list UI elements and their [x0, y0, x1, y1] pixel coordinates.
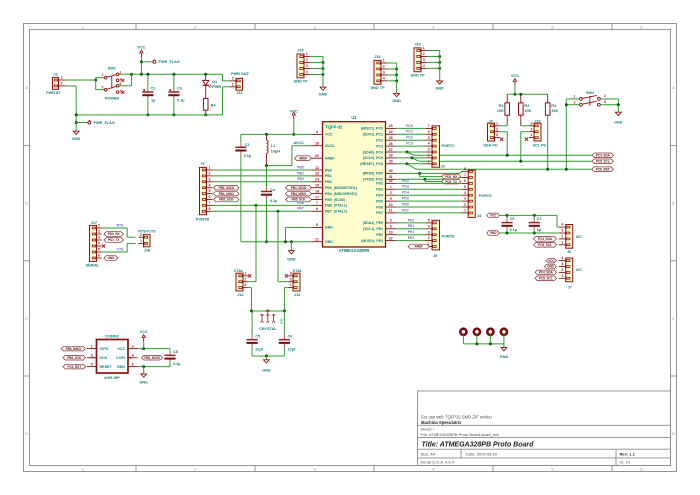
svg-text:3: 3: [313, 24, 315, 29]
svg-text:2: 2: [61, 82, 63, 86]
svg-text:GND: GND: [117, 365, 126, 369]
svg-text:GND: GND: [108, 256, 116, 260]
svg-text:R4: R4: [211, 104, 217, 108]
svg-text:(SCK1)_PC1: (SCK1)_PC1: [363, 133, 383, 137]
svg-text:4: 4: [383, 76, 385, 80]
svg-text:J13: J13: [280, 318, 284, 324]
svg-text:C7: C7: [537, 217, 542, 221]
svg-text:4: 4: [209, 183, 211, 187]
svg-text:CONN1: CONN1: [105, 333, 120, 338]
svg-text:2: 2: [423, 52, 425, 56]
svg-text:23: 23: [389, 124, 393, 128]
svg-text:GND: GND: [287, 257, 296, 261]
svg-text:PB2: PB2: [325, 180, 332, 184]
svg-text:PC5_SCL: PC5_SCL: [539, 277, 553, 281]
svg-text:R3: R3: [551, 104, 556, 108]
svg-text:4: 4: [306, 70, 308, 74]
svg-text:PB4_MISO: PB4_MISO: [291, 192, 307, 196]
svg-text:PD5: PD5: [402, 197, 409, 201]
svg-text:PD4: PD4: [376, 194, 383, 198]
svg-text:J9: J9: [488, 119, 492, 123]
svg-text:PWR IN: PWR IN: [46, 91, 60, 95]
svg-text:PE0: PE0: [408, 218, 415, 222]
svg-text:3: 3: [464, 197, 466, 201]
svg-text:R1: R1: [499, 104, 504, 108]
svg-text:5: 5: [316, 223, 318, 227]
svg-text:J4: J4: [477, 214, 482, 218]
svg-text:RTS: RTS: [117, 224, 125, 228]
svg-text:Rev: 1.1: Rev: 1.1: [620, 451, 636, 456]
svg-text:5: 5: [464, 185, 466, 189]
svg-text:20: 20: [315, 154, 319, 158]
svg-text:GND: GND: [392, 99, 401, 103]
svg-text:17: 17: [315, 195, 319, 199]
svg-text:C6: C6: [288, 334, 293, 338]
svg-text:1µ: 1µ: [151, 99, 155, 103]
svg-text:1: 1: [390, 185, 392, 189]
svg-text:(MISO1)_PC0: (MISO1)_PC0: [361, 127, 383, 131]
svg-text:PC2: PC2: [406, 136, 413, 140]
svg-text:1: 1: [531, 133, 533, 137]
svg-text:PC0: PC0: [406, 124, 413, 128]
svg-text:PD5: PD5: [376, 199, 383, 203]
svg-text:1: 1: [561, 240, 563, 244]
svg-text:J10: J10: [534, 119, 540, 123]
svg-text:PC4_SDA: PC4_SDA: [596, 154, 611, 158]
svg-text:13: 13: [315, 172, 319, 176]
svg-text:3: 3: [531, 121, 533, 125]
svg-text:J3: J3: [441, 164, 445, 168]
svg-text:6: 6: [640, 24, 642, 29]
svg-text:8: 8: [464, 167, 466, 171]
svg-text:C5: C5: [255, 334, 260, 338]
svg-text:PB3_MOSI: PB3_MOSI: [291, 186, 307, 190]
svg-text:PC2: PC2: [376, 139, 383, 143]
svg-text:PB1: PB1: [325, 174, 332, 178]
svg-text:J12: J12: [237, 293, 243, 297]
svg-text:J5: J5: [433, 254, 437, 258]
svg-text:1: 1: [140, 239, 142, 243]
svg-text:AVCC: AVCC: [293, 141, 304, 145]
svg-text:1: 1: [428, 159, 430, 163]
svg-text:1: 1: [232, 82, 234, 86]
svg-text:PWR: PWR: [212, 85, 221, 89]
svg-text:4: 4: [428, 224, 430, 228]
svg-text:(RESET)_PC6: (RESET)_PC6: [360, 162, 383, 166]
svg-text:7: 7: [428, 124, 430, 128]
svg-text:VCC: VCC: [511, 74, 519, 78]
svg-text:PD6: PD6: [376, 205, 383, 209]
svg-text:PD0_RX: PD0_RX: [445, 175, 458, 179]
svg-text:3: 3: [120, 78, 122, 82]
svg-text:3: 3: [383, 71, 385, 75]
svg-text:5: 5: [209, 189, 211, 193]
svg-text:PORTD: PORTD: [479, 194, 493, 198]
svg-text:1: 1: [209, 166, 211, 170]
svg-text:PB6: PB6: [297, 201, 304, 205]
svg-text:32: 32: [389, 179, 393, 183]
svg-text:7: 7: [464, 173, 466, 177]
svg-text:2: 2: [428, 154, 430, 158]
svg-text:PORTC: PORTC: [442, 144, 456, 148]
svg-text:4: 4: [98, 242, 100, 246]
svg-text:PD1_TX: PD1_TX: [108, 238, 120, 242]
svg-text:4: 4: [604, 100, 606, 104]
svg-text:12: 12: [315, 166, 319, 170]
svg-text:6: 6: [464, 179, 466, 183]
svg-text:PB5_SCK: PB5_SCK: [219, 198, 234, 202]
svg-text:3: 3: [561, 262, 563, 266]
svg-text:1: 1: [306, 52, 308, 56]
svg-text:(SCL0)_PC5: (SCL0)_PC5: [363, 156, 383, 160]
svg-text:C2: C2: [151, 86, 156, 90]
svg-text:6: 6: [428, 130, 430, 134]
svg-text:XTAL: XTAL: [234, 269, 244, 273]
svg-text:PWR OUT: PWR OUT: [231, 72, 250, 76]
svg-text:VCC: VCC: [490, 214, 497, 218]
svg-text:AREF: AREF: [299, 156, 307, 160]
svg-text:J19: J19: [414, 42, 420, 46]
svg-text:1: 1: [82, 24, 84, 29]
svg-text:3: 3: [390, 219, 392, 223]
svg-text:2: 2: [232, 77, 234, 81]
svg-text:C: C: [672, 316, 675, 321]
svg-text:File: ATMEGA328PB Proto Board.: File: ATMEGA328PB Proto Board.kicad_sch: [421, 432, 499, 437]
svg-text:PB7: PB7: [297, 207, 304, 211]
svg-text:GND TP: GND TP: [410, 73, 425, 77]
svg-text:C8: C8: [173, 350, 178, 354]
svg-text:21: 21: [315, 238, 319, 242]
svg-text:4: 4: [432, 24, 435, 29]
svg-text:(RXD0)_PD0: (RXD0)_PD0: [363, 172, 383, 176]
svg-text:GND: GND: [262, 368, 271, 372]
svg-text:CTS: CTS: [117, 248, 125, 252]
svg-text:6: 6: [132, 362, 134, 366]
svg-text:15: 15: [315, 184, 319, 188]
svg-text:11: 11: [389, 209, 393, 213]
svg-text:2: 2: [604, 94, 606, 98]
svg-text:PB7_(XTAL2): PB7_(XTAL2): [325, 210, 347, 214]
svg-text:0.1µ: 0.1µ: [270, 199, 277, 203]
svg-text:J15: J15: [297, 48, 303, 52]
svg-text:J17: J17: [91, 221, 97, 225]
svg-text:2: 2: [102, 73, 104, 77]
svg-text:22pf: 22pf: [255, 347, 264, 351]
svg-text:PD2: PD2: [402, 179, 409, 183]
svg-text:C4: C4: [270, 188, 276, 192]
svg-text:PORTE: PORTE: [442, 235, 456, 239]
svg-text:2: 2: [306, 58, 308, 62]
svg-text:0.1µ: 0.1µ: [173, 362, 180, 366]
svg-text:16: 16: [315, 189, 319, 193]
svg-text:A: A: [25, 85, 28, 90]
svg-text:2: 2: [561, 268, 563, 272]
svg-text:2: 2: [464, 203, 466, 207]
svg-text:PE2: PE2: [408, 230, 415, 234]
svg-text:J16: J16: [374, 55, 380, 59]
svg-text:5: 5: [91, 362, 93, 366]
svg-text:PWR_FLAG: PWR_FLAG: [159, 60, 180, 64]
svg-text:J11: J11: [236, 91, 242, 95]
svg-text:4: 4: [464, 191, 466, 195]
svg-text:VCC: VCC: [117, 347, 125, 351]
svg-text:PC6_RST: PC6_RST: [67, 365, 81, 369]
svg-text:For use with TQFP32 SMD ZIF so: For use with TQFP32 SMD ZIF socket: [421, 415, 493, 420]
svg-text:PB3_(MOSI0/TXD1): PB3_(MOSI0/TXD1): [325, 186, 357, 190]
svg-text:PD2: PD2: [376, 182, 383, 186]
svg-text:PB4_(MISO0/RXD1): PB4_(MISO0/RXD1): [325, 192, 357, 196]
svg-text:2: 2: [561, 235, 563, 239]
svg-text:J2: J2: [200, 161, 204, 165]
svg-text:5: 5: [98, 248, 100, 252]
svg-text:1: 1: [561, 274, 563, 278]
svg-text:1: 1: [61, 76, 63, 80]
svg-text:U1: U1: [351, 115, 357, 120]
svg-text:1: 1: [91, 344, 93, 348]
svg-text:1µ: 1µ: [537, 228, 541, 232]
svg-text:3: 3: [423, 58, 425, 62]
svg-text:5: 5: [428, 136, 430, 140]
svg-text:AREF: AREF: [415, 245, 423, 249]
svg-text:PB0: PB0: [325, 168, 332, 172]
svg-text:1: 1: [290, 283, 292, 287]
svg-text:XTAL: XTAL: [293, 269, 303, 273]
svg-text:4: 4: [132, 353, 134, 357]
svg-text:3: 3: [244, 283, 246, 287]
svg-text:PB3_MOSI: PB3_MOSI: [144, 356, 160, 360]
svg-text:1: 1: [383, 59, 385, 63]
svg-text:22: 22: [389, 236, 393, 240]
svg-text:PC3: PC3: [376, 144, 383, 148]
svg-text:2: 2: [98, 230, 100, 234]
svg-text:26: 26: [389, 142, 393, 146]
svg-text:3: 3: [306, 64, 308, 68]
svg-text:PB0: PB0: [297, 165, 304, 169]
svg-text:L1: L1: [271, 144, 275, 148]
svg-text:10K: 10K: [551, 109, 558, 113]
svg-text:VCC: VCC: [290, 110, 298, 114]
svg-text:(SDA1)_PE0: (SDA1)_PE0: [363, 221, 383, 225]
svg-text:AREF: AREF: [325, 157, 335, 161]
svg-text:29: 29: [389, 160, 393, 164]
svg-text:SW2: SW2: [586, 91, 594, 95]
svg-text:PC3: PC3: [406, 142, 413, 146]
svg-text:GND: GND: [500, 355, 509, 359]
svg-text:D1: D1: [212, 80, 217, 84]
svg-text:6: 6: [390, 225, 392, 229]
svg-text:1: 1: [573, 94, 575, 98]
svg-text:PB4_MISO: PB4_MISO: [66, 347, 82, 351]
svg-text:PB6_(XTAL1): PB6_(XTAL1): [325, 204, 347, 208]
svg-text:4: 4: [561, 256, 563, 260]
svg-text:PE3: PE3: [408, 236, 415, 240]
svg-text:POWER: POWER: [105, 97, 120, 101]
svg-text:GND: GND: [325, 240, 333, 244]
svg-text:Machina Speculatrix: Machina Speculatrix: [421, 420, 462, 425]
svg-text:I2C: I2C: [576, 235, 582, 239]
svg-text:4: 4: [432, 466, 435, 471]
svg-text:0.1µ: 0.1µ: [177, 99, 184, 103]
svg-text:18: 18: [315, 142, 319, 146]
svg-text:PE1: PE1: [408, 224, 415, 228]
svg-text:SCL PU: SCL PU: [533, 144, 547, 148]
svg-text:PWR_FLAG: PWR_FLAG: [94, 121, 115, 125]
svg-text:2: 2: [496, 127, 498, 131]
svg-text:C3: C3: [177, 86, 182, 90]
svg-text:R2: R2: [524, 104, 529, 108]
svg-text:2: 2: [531, 127, 533, 131]
svg-text:3: 3: [209, 177, 211, 181]
svg-text:ATMEGA328PB: ATMEGA328PB: [339, 248, 370, 253]
svg-text:PB4_MISO: PB4_MISO: [219, 192, 235, 196]
svg-text:RESET: RESET: [100, 365, 113, 369]
svg-text:C9: C9: [510, 217, 515, 221]
svg-text:GND: GND: [319, 92, 328, 96]
svg-text:PD7: PD7: [376, 211, 383, 215]
svg-text:PE2: PE2: [376, 233, 383, 237]
svg-text:7: 7: [209, 201, 211, 205]
svg-text:D: D: [672, 431, 675, 436]
svg-text:6: 6: [98, 254, 100, 258]
svg-text:10K: 10K: [524, 109, 531, 113]
svg-text:(SCL1)_PE1: (SCL1)_PE1: [363, 227, 383, 231]
svg-text:C: C: [25, 316, 28, 321]
svg-text:2: 2: [140, 233, 142, 237]
svg-text:VCC: VCC: [325, 133, 333, 137]
svg-text:30: 30: [389, 169, 393, 173]
svg-text:3: 3: [91, 353, 93, 357]
svg-text:GND: GND: [72, 137, 81, 141]
svg-text:3: 3: [428, 230, 430, 234]
svg-text:GND TP: GND TP: [370, 86, 385, 90]
svg-text:SERIAL: SERIAL: [86, 264, 101, 268]
svg-text:PB5_SCK: PB5_SCK: [67, 356, 82, 360]
svg-text:8: 8: [209, 207, 211, 211]
svg-text:1: 1: [98, 224, 100, 228]
svg-text:3: 3: [573, 100, 575, 104]
svg-text:Title: ATMEGA328PB Proto Board: Title: ATMEGA328PB Proto Board: [422, 442, 535, 449]
svg-text:PB5_(SCK0): PB5_(SCK0): [325, 198, 345, 202]
svg-text:VCC: VCC: [140, 330, 148, 334]
svg-text:9: 9: [390, 197, 392, 201]
svg-text:SW1: SW1: [108, 67, 116, 71]
svg-text:8: 8: [316, 207, 318, 211]
svg-text:KiCad E.D.A. 9.0.4: KiCad E.D.A. 9.0.4: [421, 460, 455, 465]
svg-text:Size: A4: Size: A4: [421, 451, 436, 456]
svg-text:TQFP-32: TQFP-32: [325, 125, 343, 130]
svg-text:25: 25: [389, 136, 393, 140]
svg-text:5: 5: [428, 219, 430, 223]
svg-text:PB1: PB1: [297, 171, 304, 175]
svg-text:Sheet: /: Sheet: /: [421, 427, 436, 432]
svg-text:1: 1: [464, 209, 466, 213]
svg-text:14: 14: [315, 178, 319, 182]
svg-text:Id: 1/1: Id: 1/1: [620, 460, 632, 465]
svg-text:J7: J7: [568, 285, 572, 289]
svg-text:24: 24: [389, 130, 393, 134]
svg-text:2: 2: [209, 172, 211, 176]
svg-text:10µH: 10µH: [271, 149, 280, 153]
svg-text:1: 1: [244, 271, 246, 275]
svg-text:5: 5: [551, 24, 553, 29]
svg-text:2: 2: [390, 191, 392, 195]
svg-text:6: 6: [120, 90, 122, 94]
svg-text:3: 3: [428, 148, 430, 152]
svg-text:1: 1: [82, 466, 84, 471]
svg-text:B: B: [672, 201, 675, 206]
svg-text:A: A: [672, 85, 675, 90]
svg-text:22pf: 22pf: [288, 347, 297, 351]
svg-text:J14: J14: [294, 293, 301, 297]
svg-text:27: 27: [389, 148, 393, 152]
svg-text:I2C: I2C: [576, 268, 582, 272]
svg-text:1: 1: [423, 46, 425, 50]
svg-text:PC4_SDA: PC4_SDA: [539, 271, 554, 275]
svg-text:PD0_RX: PD0_RX: [108, 232, 121, 236]
svg-text:AVR-ISP: AVR-ISP: [104, 375, 120, 380]
svg-text:2: 2: [194, 24, 196, 29]
svg-text:3: 3: [496, 133, 498, 137]
svg-text:10K: 10K: [497, 109, 504, 113]
svg-text:0.1µ: 0.1µ: [244, 154, 251, 158]
svg-text:3: 3: [561, 229, 563, 233]
svg-text:D: D: [25, 431, 28, 436]
svg-text:Date: 2025-08-29: Date: 2025-08-29: [466, 451, 498, 456]
svg-text:2: 2: [132, 344, 134, 348]
svg-text:4: 4: [316, 130, 318, 134]
svg-text:PC5_SCL: PC5_SCL: [596, 160, 610, 164]
svg-text:5: 5: [102, 85, 104, 89]
svg-text:1: 1: [496, 121, 498, 125]
svg-text:2: 2: [290, 277, 292, 281]
svg-text:GND: GND: [435, 86, 444, 90]
svg-text:7: 7: [316, 201, 318, 205]
svg-text:3: 3: [313, 466, 315, 471]
svg-text:6: 6: [640, 466, 642, 471]
svg-text:J6: J6: [567, 250, 571, 254]
svg-text:PD4: PD4: [402, 191, 409, 195]
svg-text:2: 2: [383, 65, 385, 69]
svg-text:0.1µ: 0.1µ: [510, 228, 517, 232]
svg-text:2: 2: [428, 236, 430, 240]
svg-text:GND: GND: [139, 380, 148, 384]
svg-text:PC1: PC1: [406, 130, 413, 134]
svg-text:2: 2: [244, 277, 246, 281]
svg-text:AVCC: AVCC: [325, 144, 335, 148]
svg-text:CIPO: CIPO: [100, 347, 109, 351]
svg-text:10: 10: [389, 203, 393, 207]
svg-text:4: 4: [428, 142, 430, 146]
svg-text:PC4_SDA: PC4_SDA: [538, 237, 553, 241]
svg-text:J18: J18: [144, 249, 150, 253]
svg-text:6: 6: [209, 195, 211, 199]
svg-text:VCC: VCC: [548, 259, 555, 263]
svg-text:GND TP: GND TP: [293, 79, 308, 83]
svg-text:4: 4: [561, 223, 563, 227]
svg-text:4: 4: [423, 64, 425, 68]
svg-text:CRYSTAL: CRYSTAL: [259, 327, 277, 331]
svg-text:GND: GND: [547, 265, 555, 269]
svg-text:(MOSI1)_PE3: (MOSI1)_PE3: [361, 239, 383, 243]
svg-text:COPI: COPI: [116, 356, 125, 360]
svg-text:C1: C1: [245, 143, 250, 147]
svg-text:GND: GND: [325, 226, 333, 230]
svg-text:PD3: PD3: [376, 188, 383, 192]
svg-text:PB3_MOSI: PB3_MOSI: [219, 186, 235, 190]
svg-text:PD3: PD3: [402, 185, 409, 189]
svg-text:GND: GND: [614, 120, 623, 124]
svg-text:VCC: VCC: [137, 46, 145, 50]
